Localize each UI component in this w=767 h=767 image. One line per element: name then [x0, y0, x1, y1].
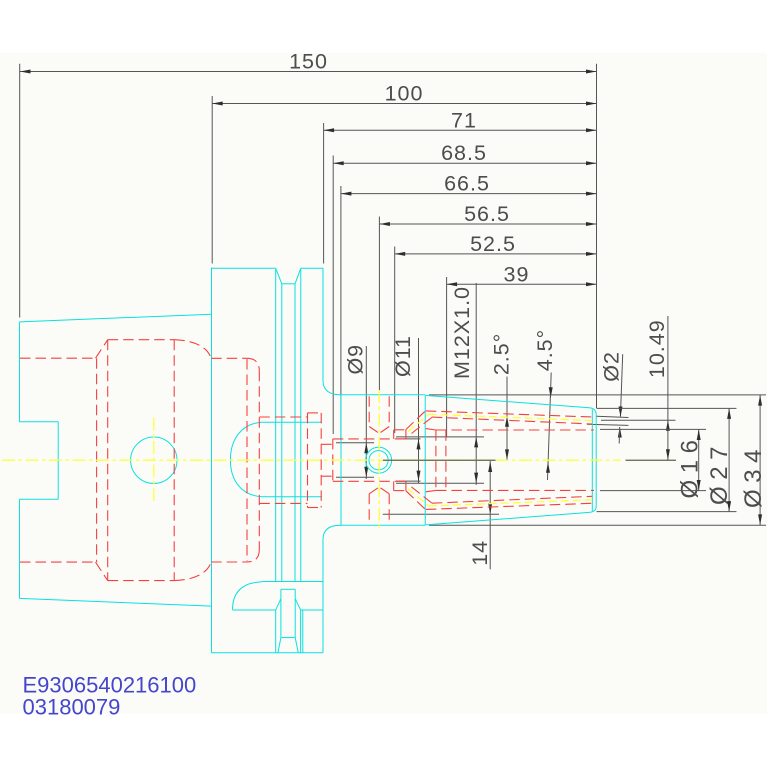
svg-text:Ø11: Ø11 [391, 335, 415, 377]
svg-text:Ø34: Ø34 [740, 443, 767, 508]
svg-text:4.5°: 4.5° [533, 329, 557, 372]
svg-text:Ø9: Ø9 [344, 344, 368, 375]
svg-text:M12X1.0: M12X1.0 [450, 286, 474, 379]
svg-text:150: 150 [289, 50, 328, 74]
svg-text:71: 71 [451, 108, 477, 132]
svg-text:Ø16: Ø16 [677, 434, 704, 499]
svg-text:Ø27: Ø27 [706, 440, 733, 505]
svg-text:14: 14 [468, 540, 492, 566]
svg-text:2.5°: 2.5° [490, 333, 514, 376]
svg-text:10.49: 10.49 [645, 319, 669, 378]
svg-text:03180079: 03180079 [23, 695, 121, 720]
svg-text:Ø2: Ø2 [600, 351, 624, 382]
svg-text:56.5: 56.5 [464, 202, 510, 226]
svg-text:66.5: 66.5 [444, 172, 490, 196]
svg-text:39: 39 [504, 262, 530, 286]
svg-text:100: 100 [385, 82, 424, 106]
svg-text:68.5: 68.5 [441, 141, 487, 165]
svg-text:52.5: 52.5 [470, 232, 516, 256]
